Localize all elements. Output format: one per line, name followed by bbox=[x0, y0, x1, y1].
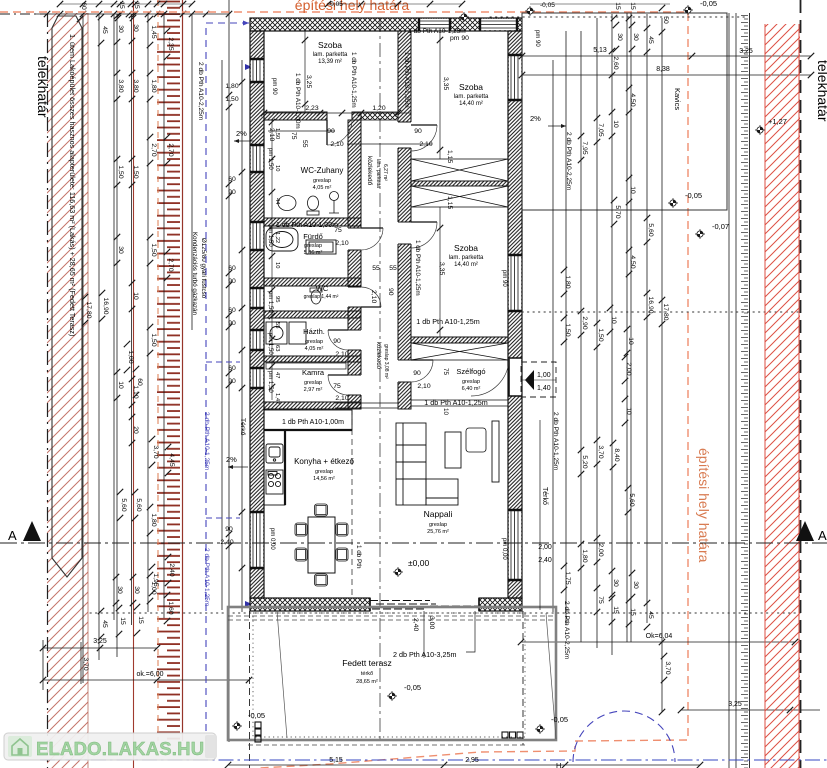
bottom wall right segment bbox=[479, 598, 522, 611]
konyha label bbox=[294, 457, 354, 482]
svg-text:1 db Pth A10-1,00m: 1 db Pth A10-1,00m bbox=[294, 73, 301, 129]
left dimension labels bbox=[77, 0, 175, 640]
svg-text:75: 75 bbox=[333, 383, 341, 390]
wc-zuhany label bbox=[301, 166, 344, 191]
szelfogo label bbox=[456, 367, 485, 392]
chair bbox=[336, 523, 348, 536]
svg-text:építési hely határa: építési hely határa bbox=[696, 448, 712, 563]
svg-text:1 db Pth A10-1,25m: 1 db Pth A10-1,25m bbox=[414, 240, 421, 296]
svg-text:2,40: 2,40 bbox=[412, 618, 419, 631]
svg-text:2,10: 2,10 bbox=[370, 290, 377, 303]
svg-text:1,80: 1,80 bbox=[564, 275, 571, 288]
svg-text:pm 0,00: pm 0,00 bbox=[501, 538, 507, 560]
svg-text:Konyha + étkező: Konyha + étkező bbox=[294, 457, 354, 466]
svg-text:10: 10 bbox=[610, 316, 617, 324]
kamra door bbox=[328, 375, 348, 395]
furdo label bbox=[303, 232, 323, 256]
ticks along x=229 bbox=[226, 92, 232, 98]
wc-zuhany / furdo wall bbox=[264, 218, 361, 226]
svg-text:15: 15 bbox=[137, 616, 144, 624]
left wall window bbox=[250, 222, 264, 250]
hazth / kamra wall bbox=[264, 356, 361, 362]
wc label bbox=[304, 284, 339, 300]
svg-text:telekhatár: telekhatár bbox=[815, 60, 827, 122]
svg-text:pm 90: pm 90 bbox=[450, 35, 469, 42]
svg-text:60: 60 bbox=[228, 176, 236, 183]
svg-text:Nappali: Nappali bbox=[424, 509, 453, 519]
rotated interior dims bbox=[268, 75, 453, 303]
terrace columns right bbox=[502, 732, 523, 738]
svg-text:90: 90 bbox=[413, 370, 421, 377]
svg-text:60: 60 bbox=[228, 265, 236, 272]
svg-text:90: 90 bbox=[414, 128, 422, 135]
furdo bathtub bbox=[266, 228, 298, 251]
svg-text:2,10: 2,10 bbox=[335, 351, 348, 358]
svg-text:4,50: 4,50 bbox=[629, 93, 636, 106]
armchair bbox=[466, 428, 486, 452]
szoba1 bottom wall bbox=[264, 112, 398, 120]
ladder tick strip bbox=[741, 13, 750, 768]
house outer walls bbox=[250, 18, 556, 611]
svg-text:90: 90 bbox=[387, 288, 394, 296]
svg-text:3,25: 3,25 bbox=[305, 75, 312, 88]
svg-text:15: 15 bbox=[629, 2, 636, 10]
svg-text:50: 50 bbox=[662, 16, 669, 24]
svg-text:-0,07: -0,07 bbox=[712, 222, 729, 231]
svg-text:4,05 m²: 4,05 m² bbox=[313, 185, 332, 191]
built-in wardrobe 1 (X box) bbox=[411, 159, 508, 181]
kamra label bbox=[302, 368, 325, 393]
svg-text:2,10: 2,10 bbox=[330, 141, 343, 148]
svg-text:3,70: 3,70 bbox=[152, 445, 159, 458]
red boundary line bbox=[133, 0, 135, 768]
svg-text:10: 10 bbox=[274, 262, 280, 268]
rotated lintel labels bbox=[294, 52, 421, 569]
left dimension line cluster bbox=[35, 0, 249, 742]
svg-text:-0,05: -0,05 bbox=[540, 2, 555, 9]
blue arrow at house corner bottom bbox=[245, 601, 252, 607]
1,20 sill opening (parapet) bbox=[361, 112, 398, 120]
hazth door bbox=[328, 330, 348, 350]
svg-text:44: 44 bbox=[274, 198, 280, 205]
right wall window bbox=[508, 510, 522, 580]
svg-text:greslap: greslap bbox=[315, 469, 333, 475]
kitchen counter left column bbox=[264, 430, 285, 505]
svg-text:3,25: 3,25 bbox=[739, 48, 753, 55]
drain marker top wall bbox=[459, 12, 469, 22]
right wall window bbox=[508, 255, 522, 311]
svg-text:1,80: 1,80 bbox=[150, 79, 157, 92]
svg-text:95: 95 bbox=[274, 296, 280, 302]
svg-text:ELADO.LAKAS.HU: ELADO.LAKAS.HU bbox=[36, 738, 204, 759]
left plot boundary hatched strip bbox=[47, 13, 88, 768]
svg-text:1,75: 1,75 bbox=[564, 571, 571, 584]
svg-text:10: 10 bbox=[627, 337, 634, 345]
svg-text:4,05 m²: 4,05 m² bbox=[305, 346, 324, 352]
svg-text:építési hely határa: építési hely határa bbox=[295, 0, 410, 13]
svg-text:20: 20 bbox=[132, 426, 139, 434]
svg-text:60: 60 bbox=[228, 307, 236, 314]
entrance arrow bbox=[525, 370, 534, 390]
svg-text:2,60: 2,60 bbox=[612, 56, 619, 69]
svg-text:1,10: 1,10 bbox=[132, 385, 139, 398]
interior dimension chain lines bbox=[264, 31, 540, 610]
svg-text:1,80: 1,80 bbox=[581, 549, 588, 562]
svg-text:1,50: 1,50 bbox=[132, 165, 139, 178]
tick marks top carrier bbox=[40, 11, 252, 683]
centre axis line bbox=[379, 18, 381, 742]
svg-text:1,50: 1,50 bbox=[117, 165, 124, 178]
dining table bbox=[308, 517, 335, 573]
chair bbox=[295, 523, 307, 536]
svg-text:3,80: 3,80 bbox=[132, 79, 139, 92]
svg-text:Kamra: Kamra bbox=[302, 368, 325, 377]
svg-text:Szélfogó: Szélfogó bbox=[456, 367, 485, 376]
svg-text:1,20: 1,20 bbox=[372, 105, 385, 112]
svg-text:greslap: greslap bbox=[462, 379, 480, 385]
interior wall: left rooms vs corridor (vertical) bbox=[347, 120, 361, 409]
ticks along x=242 bbox=[239, 79, 245, 85]
svg-text:5,15: 5,15 bbox=[329, 757, 343, 764]
svg-text:30: 30 bbox=[632, 33, 639, 41]
svg-text:Térkő: Térkő bbox=[541, 487, 548, 505]
svg-text:10: 10 bbox=[625, 407, 632, 415]
top carrier ticks y=4 bbox=[57, 1, 63, 7]
kozlekedo label upper bbox=[366, 156, 388, 188]
svg-text:1,45: 1,45 bbox=[150, 25, 157, 38]
blue dashed gas line bbox=[206, 23, 249, 741]
svg-text:Térkő: Térkő bbox=[239, 418, 246, 436]
szoba3 label bbox=[449, 243, 484, 268]
tv board bbox=[492, 421, 499, 482]
svg-text:1,50: 1,50 bbox=[274, 128, 280, 139]
svg-text:H: H bbox=[556, 761, 561, 768]
kamra shelf bbox=[266, 363, 346, 369]
svg-text:greslap: greslap bbox=[313, 178, 331, 184]
svg-text:14,40 m²: 14,40 m² bbox=[454, 262, 478, 268]
svg-text:1,80: 1,80 bbox=[150, 513, 157, 526]
svg-text:30: 30 bbox=[117, 25, 124, 33]
svg-text:30: 30 bbox=[632, 581, 639, 589]
svg-text:2,10: 2,10 bbox=[335, 395, 348, 402]
svg-text:telekhatár: telekhatár bbox=[35, 56, 51, 118]
section line A-A bbox=[0, 542, 827, 544]
inner-wall dimension chain bbox=[271, 120, 273, 400]
wc-zuhany sink bbox=[278, 196, 296, 211]
sliding glass door in bottom wall bbox=[370, 598, 479, 611]
svg-text:90: 90 bbox=[333, 338, 341, 345]
svg-text:5,13: 5,13 bbox=[593, 47, 607, 54]
szoba2 door bbox=[411, 125, 437, 151]
szoba3 door bbox=[411, 222, 437, 248]
szelfogo door bbox=[411, 360, 433, 382]
horizontal labels right bbox=[538, 47, 753, 708]
furdo / wc wall bbox=[264, 278, 361, 286]
svg-text:térkő: térkő bbox=[361, 671, 373, 677]
svg-text:1 db Pth A10-1,00m: 1 db Pth A10-1,00m bbox=[282, 419, 344, 426]
kitchen counter top row bbox=[264, 410, 352, 430]
svg-text:2,10: 2,10 bbox=[419, 141, 432, 148]
svg-text:1 db Pth A10-1,25m: 1 db Pth A10-1,25m bbox=[408, 28, 465, 35]
szoba1 label bbox=[313, 40, 348, 65]
svg-text:2%: 2% bbox=[236, 129, 247, 138]
svg-text:-0,05: -0,05 bbox=[404, 683, 421, 692]
bottom wall left segment bbox=[250, 598, 370, 611]
svg-text:2%: 2% bbox=[530, 114, 541, 123]
dashed wall projections into terrace bbox=[250, 611, 524, 768]
svg-text:2 db Pth A10-2,25m: 2 db Pth A10-2,25m bbox=[565, 132, 572, 191]
svg-text:4,50: 4,50 bbox=[629, 255, 636, 268]
svg-text:5,70: 5,70 bbox=[614, 205, 621, 218]
svg-text:-0,05: -0,05 bbox=[248, 711, 265, 720]
svg-text:45: 45 bbox=[101, 26, 108, 34]
section marker A left bbox=[23, 521, 41, 541]
kitchen stove bbox=[266, 470, 283, 494]
nappali label bbox=[424, 509, 453, 535]
right dimension line cluster bbox=[521, 4, 820, 768]
svg-text:pm 90: pm 90 bbox=[271, 78, 277, 95]
svg-text:8,38: 8,38 bbox=[656, 66, 670, 73]
kozlekedo label lower bbox=[375, 342, 389, 379]
lintel labels bbox=[276, 28, 488, 426]
right wall window bbox=[508, 55, 522, 100]
svg-text:A: A bbox=[8, 528, 17, 543]
svg-text:2,10: 2,10 bbox=[417, 383, 430, 390]
svg-text:1,95: 1,95 bbox=[152, 573, 159, 586]
interior door dimension labels bbox=[305, 105, 432, 402]
house-side left labels bbox=[220, 83, 238, 546]
svg-text:2,10: 2,10 bbox=[268, 128, 275, 141]
svg-text:5,86 m²: 5,86 m² bbox=[304, 250, 323, 256]
svg-text:2,10: 2,10 bbox=[335, 240, 348, 247]
bottom dimension line bbox=[228, 764, 700, 766]
svg-text:5,60: 5,60 bbox=[120, 498, 127, 511]
terrace outer slab bbox=[228, 607, 556, 740]
left wall window bbox=[250, 512, 264, 568]
svg-text:ok.=6,00: ok.=6,00 bbox=[136, 671, 163, 678]
svg-text:lam. parketta: lam. parketta bbox=[454, 94, 489, 100]
svg-text:Fedett terasz: Fedett terasz bbox=[342, 658, 392, 668]
chair bbox=[295, 548, 307, 561]
svg-text:28,65 m²: 28,65 m² bbox=[356, 679, 378, 685]
wc toilet bbox=[310, 288, 322, 304]
top wall bbox=[250, 18, 522, 31]
top-left boundary stub bbox=[0, 13, 47, 15]
svg-text:1 db Pth A10-1,25m: 1 db Pth A10-1,25m bbox=[350, 52, 357, 108]
svg-text:75: 75 bbox=[597, 596, 604, 604]
svg-text:WC: WC bbox=[316, 284, 329, 293]
svg-text:1,50: 1,50 bbox=[150, 333, 157, 346]
svg-text:Kavics: Kavics bbox=[673, 88, 682, 110]
svg-text:greslap: greslap bbox=[429, 522, 447, 528]
svg-text:greslap: greslap bbox=[304, 243, 322, 249]
svg-text:14,40 m²: 14,40 m² bbox=[459, 101, 483, 107]
svg-text:Fürdő: Fürdő bbox=[303, 232, 323, 241]
interior wall: corridor vs right rooms (vertical) bbox=[397, 31, 411, 409]
svg-text:10: 10 bbox=[132, 292, 139, 300]
watermark band bbox=[4, 733, 217, 760]
svg-text:5,60: 5,60 bbox=[628, 493, 635, 506]
chair bbox=[336, 548, 348, 561]
svg-text:2,95: 2,95 bbox=[465, 757, 479, 764]
svg-text:3,25: 3,25 bbox=[93, 638, 107, 645]
right wall bbox=[508, 31, 522, 598]
top centre dims bbox=[328, 3, 462, 5]
szelfogo bottom lintel bbox=[411, 400, 508, 406]
svg-text:2 db Pth A10-2,25m: 2 db Pth A10-2,25m bbox=[563, 601, 570, 660]
svg-text:10: 10 bbox=[442, 408, 449, 416]
svg-text:1 db Pth A10-1,25m: 1 db Pth A10-1,25m bbox=[416, 317, 480, 326]
svg-text:3,70: 3,70 bbox=[597, 445, 604, 458]
svg-text:2,35: 2,35 bbox=[167, 37, 174, 50]
konyha lintel line bbox=[335, 403, 398, 408]
svg-text:90: 90 bbox=[225, 526, 233, 533]
svg-text:6,27 m²: 6,27 m² bbox=[382, 164, 388, 181]
svg-text:2,70: 2,70 bbox=[167, 143, 174, 156]
left strip capsule outline bbox=[52, 16, 82, 577]
drain diagonals bbox=[277, 611, 556, 739]
svg-text:6,40 m²: 6,40 m² bbox=[462, 386, 481, 392]
bottom blue dashdot line bbox=[40, 759, 827, 761]
chair bbox=[315, 574, 328, 586]
roof overhang dashed bottom bbox=[248, 744, 525, 746]
svg-text:8,40: 8,40 bbox=[613, 448, 620, 461]
wc door bbox=[361, 287, 381, 307]
svg-text:17,80: 17,80 bbox=[85, 301, 92, 318]
kitchen divider dashed bbox=[351, 409, 353, 598]
kitchen sink bbox=[266, 444, 283, 463]
dotted projection lines bbox=[90, 17, 800, 613]
svg-text:lam. parketta: lam. parketta bbox=[375, 159, 381, 188]
property line right dashed bbox=[800, 0, 802, 768]
svg-text:greslap 1,44 m²: greslap 1,44 m² bbox=[304, 294, 339, 300]
svg-text:7,95: 7,95 bbox=[581, 141, 588, 154]
parapet pm labels bbox=[267, 30, 540, 560]
svg-text:55: 55 bbox=[389, 265, 397, 272]
svg-text:2%: 2% bbox=[226, 455, 237, 464]
svg-text:lam. parketta: lam. parketta bbox=[313, 52, 348, 58]
watermark house icon bbox=[8, 736, 32, 757]
svg-text:47: 47 bbox=[274, 372, 280, 378]
svg-text:7,05: 7,05 bbox=[597, 123, 604, 136]
entrance door opening right wall bbox=[471, 358, 522, 396]
svg-text:2,70: 2,70 bbox=[167, 258, 174, 271]
svg-text:Házth.: Házth. bbox=[303, 327, 325, 336]
section marker A right bbox=[796, 521, 814, 541]
left wall bbox=[250, 31, 264, 598]
svg-text:3,25: 3,25 bbox=[728, 701, 742, 708]
hazth appliances bbox=[266, 322, 306, 344]
svg-text:5,60: 5,60 bbox=[647, 223, 654, 236]
svg-text:±0,00: ±0,00 bbox=[408, 558, 429, 568]
svg-text:1,00: 1,00 bbox=[127, 350, 134, 363]
svg-text:2,00: 2,00 bbox=[597, 543, 604, 556]
kamra / konyha wall bbox=[264, 402, 361, 409]
svg-text:2 db Pth A10-1,25m: 2 db Pth A10-1,25m bbox=[552, 412, 559, 471]
svg-text:-0,05: -0,05 bbox=[551, 715, 568, 724]
terrace inner dotted bbox=[253, 613, 525, 737]
szoba2 label bbox=[454, 82, 489, 107]
sofa L-shape bbox=[396, 423, 458, 505]
svg-text:2,70: 2,70 bbox=[150, 143, 157, 156]
svg-text:pm 0,00: pm 0,00 bbox=[269, 528, 275, 550]
svg-text:3,70: 3,70 bbox=[82, 657, 89, 670]
svg-text:16,90: 16,90 bbox=[102, 297, 109, 314]
svg-text:45: 45 bbox=[647, 611, 654, 619]
svg-text:Szoba: Szoba bbox=[459, 82, 483, 92]
wc-zuhany toilet bbox=[307, 196, 319, 215]
svg-text:-0,05: -0,05 bbox=[685, 191, 702, 200]
survey markers bbox=[525, 6, 535, 16]
szoba3 bottom wall bbox=[411, 337, 508, 343]
svg-text:45: 45 bbox=[101, 620, 108, 628]
svg-text:30: 30 bbox=[117, 246, 124, 254]
svg-text:3,35: 3,35 bbox=[442, 77, 449, 90]
svg-text:55: 55 bbox=[274, 322, 280, 328]
wc-zuhany door (top wall) bbox=[327, 120, 352, 145]
svg-text:2,23: 2,23 bbox=[305, 105, 318, 112]
svg-text:1,15: 1,15 bbox=[446, 150, 453, 163]
svg-text:1,80: 1,80 bbox=[225, 83, 238, 90]
top wall window bbox=[419, 18, 450, 31]
svg-text:greslap: greslap bbox=[304, 380, 322, 386]
svg-text:3,70: 3,70 bbox=[664, 661, 671, 674]
svg-text:1 db Pth: 1 db Pth bbox=[355, 545, 362, 569]
svg-text:16,90: 16,90 bbox=[647, 296, 654, 313]
svg-text:Ok=6,04: Ok=6,04 bbox=[646, 633, 673, 640]
chair bbox=[315, 504, 328, 516]
svg-text:1,50: 1,50 bbox=[597, 328, 604, 341]
svg-text:10: 10 bbox=[117, 381, 124, 389]
red fence comb band bbox=[157, 0, 183, 741]
terrace columns left bbox=[255, 722, 261, 742]
svg-text:10: 10 bbox=[629, 186, 636, 194]
svg-text:55: 55 bbox=[372, 265, 380, 272]
left wall window bbox=[250, 59, 264, 82]
svg-text:75: 75 bbox=[290, 132, 297, 140]
svg-text:pm 90: pm 90 bbox=[501, 270, 507, 287]
svg-text:30: 30 bbox=[612, 579, 619, 587]
furdo door bbox=[361, 228, 383, 250]
svg-text:A: A bbox=[818, 528, 827, 543]
svg-text:-0,05: -0,05 bbox=[700, 0, 717, 8]
svg-text:30: 30 bbox=[133, 586, 140, 594]
entrance landing dashed bbox=[521, 362, 556, 397]
svg-text:5,60: 5,60 bbox=[135, 498, 142, 511]
svg-text:60: 60 bbox=[228, 365, 236, 372]
svg-text:1. ütem Lakóépület összes hasz: 1. ütem Lakóépület összes hasznos alapte… bbox=[68, 34, 77, 336]
svg-text:1,15: 1,15 bbox=[446, 196, 453, 209]
right plot boundary hatched strip bbox=[765, 24, 800, 768]
svg-text:15: 15 bbox=[119, 617, 126, 625]
gas line branches bbox=[206, 362, 240, 518]
svg-text:1,50: 1,50 bbox=[564, 323, 571, 336]
blue dashed turning arc bbox=[573, 711, 675, 762]
furdo vanity bbox=[306, 240, 336, 254]
svg-text:60: 60 bbox=[136, 378, 143, 386]
svg-text:Kondenzációs turbó gázkazán: Kondenzációs turbó gázkazán bbox=[191, 232, 198, 315]
svg-text:2 db Pth A10-3,25m: 2 db Pth A10-3,25m bbox=[393, 650, 457, 659]
svg-text:pm 90: pm 90 bbox=[534, 30, 540, 47]
svg-text:55: 55 bbox=[301, 140, 308, 148]
svg-text:+1,27: +1,27 bbox=[768, 117, 787, 126]
svg-text:5,20: 5,20 bbox=[581, 455, 588, 468]
svg-text:1,22: 1,22 bbox=[274, 232, 280, 243]
svg-text:75: 75 bbox=[442, 368, 449, 376]
svg-text:közlekedő: közlekedő bbox=[366, 156, 373, 186]
svg-text:90: 90 bbox=[327, 128, 335, 135]
gravel area rectangle bbox=[522, 13, 727, 210]
